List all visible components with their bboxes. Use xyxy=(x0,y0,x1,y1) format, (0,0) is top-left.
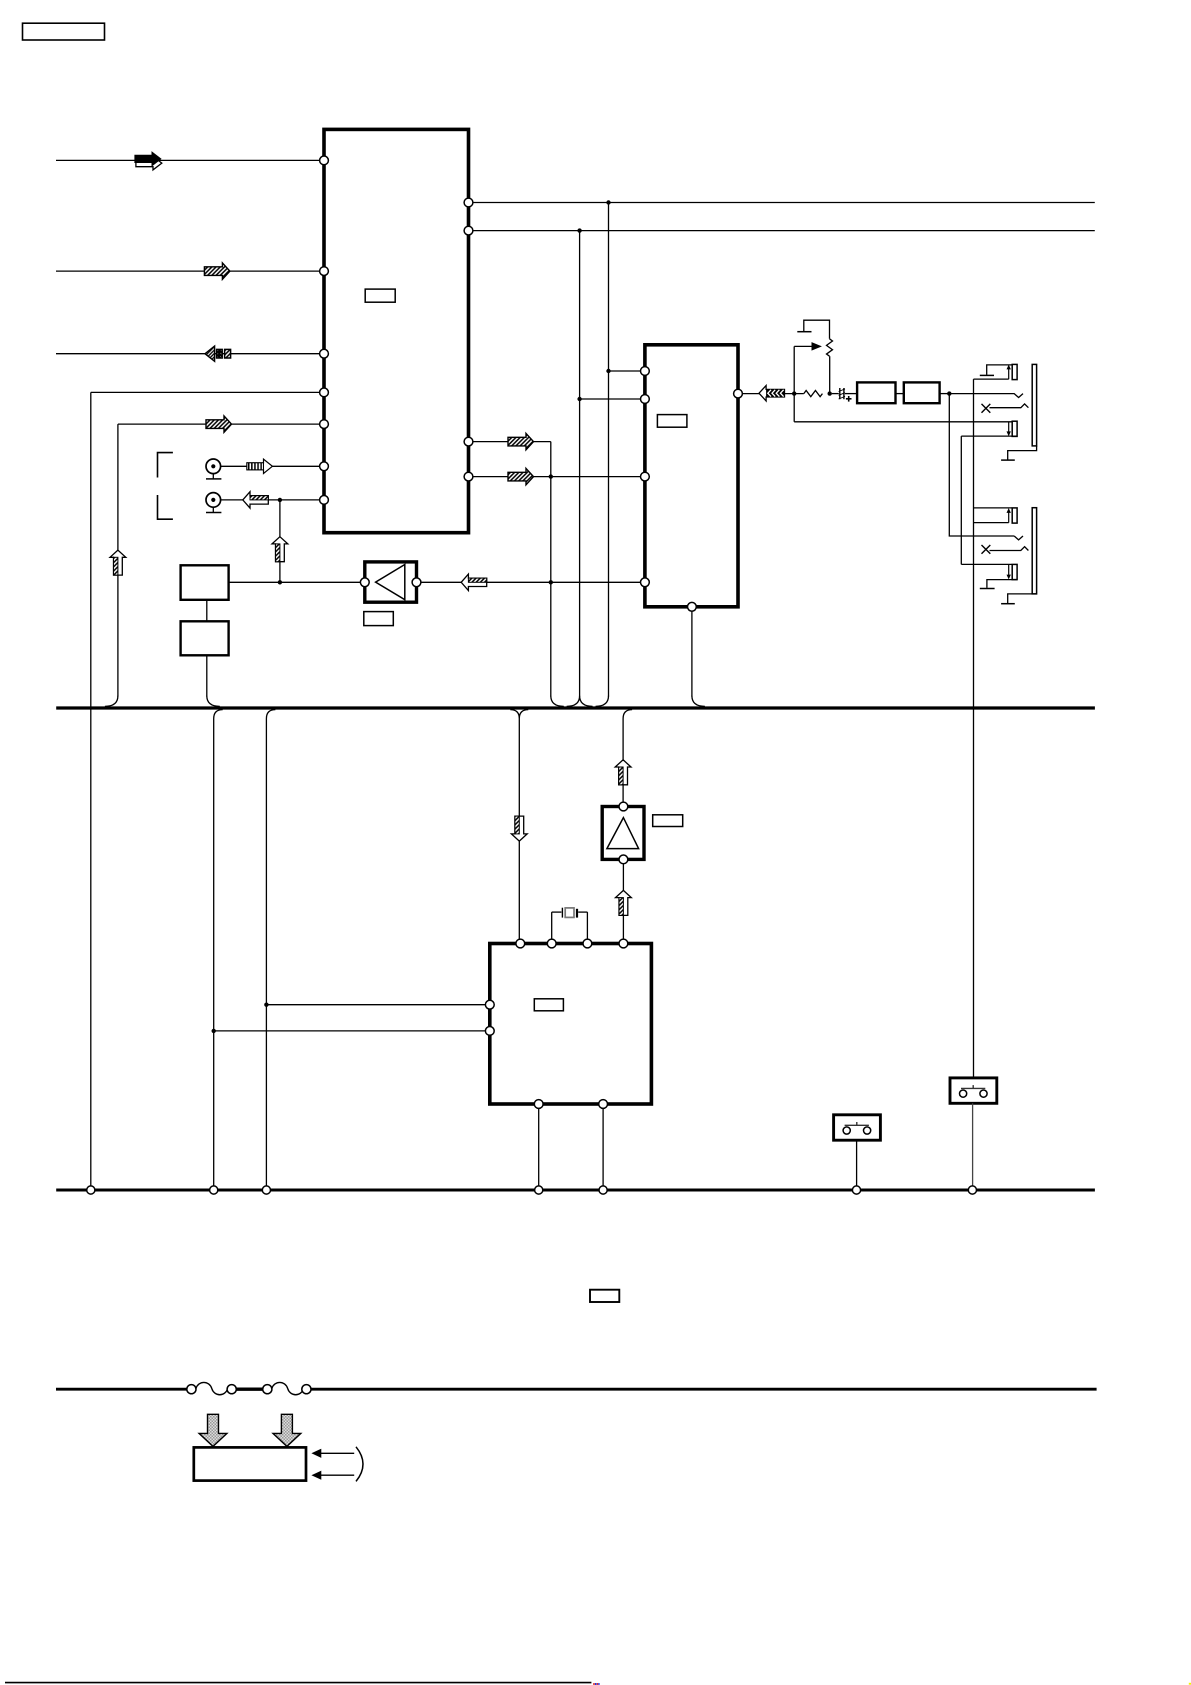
wire junction to C1 xyxy=(832,393,839,395)
up arrow on rail x118 xyxy=(110,550,126,575)
jack J2 xyxy=(206,493,221,508)
striped arrow right xyxy=(247,459,273,473)
head D coil xyxy=(1012,564,1017,579)
pin U1-in1 xyxy=(320,156,329,165)
wire J1 to U1 xyxy=(221,465,320,467)
wire pin4 left xyxy=(91,391,320,393)
potentiometer VR1 (vertical zigzag) xyxy=(827,339,833,356)
tap rail x623 xyxy=(623,710,632,802)
rotary transformer core 2 xyxy=(1032,508,1036,594)
rail x90 down to ground bus xyxy=(90,392,92,1185)
head C top wire xyxy=(974,507,1012,509)
page label box xyxy=(23,23,105,40)
rail x118 down to bus xyxy=(117,424,119,696)
connector CN2 xyxy=(950,1078,997,1103)
bus terminal x538 xyxy=(535,1186,543,1194)
tap rail x213.7 xyxy=(214,710,223,1186)
left arrow with hatched squares xyxy=(205,346,215,361)
wire amp to U2 xyxy=(421,581,641,583)
bracket curve xyxy=(356,1447,363,1482)
bus terminal x213 xyxy=(210,1186,218,1194)
amp box Q1 xyxy=(365,562,417,602)
junction head node xyxy=(947,391,951,395)
head B coil xyxy=(1012,421,1017,436)
head B bottom wire xyxy=(961,435,1017,437)
up arrow Q2 input xyxy=(616,890,632,915)
delay box D1 xyxy=(857,382,895,403)
rotary transformer core 1 xyxy=(1032,364,1036,446)
solid signal arrow xyxy=(136,156,162,170)
head A top wire + chassis xyxy=(987,365,1012,375)
pin U3-t4 xyxy=(619,939,628,948)
branch rail x280 down xyxy=(279,500,281,582)
U1 part-number label box xyxy=(365,289,395,302)
pin U1-p4 xyxy=(320,388,329,397)
pin U1-p7 xyxy=(320,496,329,505)
pin U1-in3 xyxy=(320,349,329,358)
wire U3-L1 to rail x266 xyxy=(266,1004,485,1006)
pin U2-1 xyxy=(641,367,650,376)
winding chevron 1 xyxy=(949,394,1023,398)
pin U1-in2 xyxy=(320,267,329,276)
capacitor C1 (polarized) xyxy=(839,388,841,399)
power line mid segment xyxy=(236,1388,262,1391)
amp triangle xyxy=(376,565,405,600)
wire rail x580 to U2-2 xyxy=(580,398,641,400)
wire box A to amp xyxy=(229,581,361,583)
return arrow 1 xyxy=(320,1452,355,1454)
crystal X1 xyxy=(565,908,574,918)
wire input 2 xyxy=(56,270,320,272)
wire pin5 left xyxy=(118,423,320,425)
plus mark xyxy=(846,398,852,400)
crossed winding 2 xyxy=(982,545,991,554)
pin Q2-bottom xyxy=(619,855,628,864)
chevron arrow left xyxy=(759,386,785,401)
wire J2 to U1 xyxy=(221,499,320,501)
wire rail x608 to U2-1 xyxy=(609,370,641,372)
up arrow to bus xyxy=(615,760,631,785)
box B (sensor) xyxy=(181,621,229,655)
power line right segment xyxy=(311,1388,1097,1391)
crystal legs xyxy=(551,912,553,939)
tap rail x266.4 xyxy=(266,710,275,1186)
junction rail x280 / amp wire xyxy=(278,580,282,584)
junction out2/rail xyxy=(577,228,581,232)
junction wiper xyxy=(792,391,796,395)
rail U2-gnd down to bus xyxy=(691,611,693,696)
footer rule xyxy=(5,1682,591,1684)
wire D1-D2 xyxy=(896,393,904,395)
coil L1 xyxy=(187,1385,196,1394)
IC U3 capstan/servo block xyxy=(490,944,652,1105)
wire U2 out xyxy=(742,393,760,395)
gray arrow 1 xyxy=(199,1414,227,1446)
corner mark xyxy=(1189,1683,1191,1685)
core 1 ground xyxy=(1008,446,1037,460)
rail V3 (to connector) xyxy=(973,379,975,1078)
middle supply bus xyxy=(56,706,1095,709)
wire input 1 xyxy=(56,159,320,161)
Q2 label box xyxy=(653,815,683,827)
wire C1 to delay box xyxy=(845,393,857,395)
IC U1 main block xyxy=(324,129,469,532)
wire rail x519 into U3 xyxy=(518,719,520,940)
rail x551 down to bus xyxy=(550,442,552,697)
pin U2-gnd xyxy=(688,602,697,611)
pin amp-in xyxy=(360,578,369,587)
head D bottom wire + chassis xyxy=(987,580,1017,588)
crossed winding 1 xyxy=(982,404,991,413)
bus terminal x266 xyxy=(262,1186,270,1194)
core 2 ground xyxy=(1008,594,1037,603)
wire D2 to head node xyxy=(940,393,950,395)
junction amp wire / rail x551 xyxy=(549,580,553,584)
junction rail x266 xyxy=(264,1003,268,1007)
wiper arm xyxy=(794,345,812,347)
bus terminal x90 xyxy=(87,1186,95,1194)
junction J2 branch xyxy=(278,498,282,502)
bus terminal x856 xyxy=(852,1186,860,1194)
wire U3-b1 to ground bus xyxy=(538,1108,540,1185)
link box A-B xyxy=(206,600,208,622)
VR1 top to ground xyxy=(804,320,830,339)
rail V2 xyxy=(960,436,962,564)
junction rail x213 xyxy=(212,1029,216,1033)
junction rail x580 xyxy=(577,397,581,401)
junction rail x608 xyxy=(606,369,610,373)
pin Q2-top xyxy=(619,802,628,811)
pin U1-out4 xyxy=(464,472,473,481)
head D top wire xyxy=(961,563,1011,565)
head A coil xyxy=(1012,364,1017,379)
pin U3-L2 xyxy=(485,1027,494,1036)
U2 label box xyxy=(657,415,687,428)
gray arrow 2 xyxy=(273,1414,301,1446)
winding chevron 2 xyxy=(1014,536,1023,540)
jack J1 xyxy=(206,459,221,474)
wire CN2 to ground bus xyxy=(972,1103,974,1186)
head A bottom wire xyxy=(974,378,1009,380)
buffer Q2 box xyxy=(602,807,644,860)
rail V1 (head node down) xyxy=(949,394,1014,536)
wire arrow to junction xyxy=(785,393,804,395)
junction out1/rail xyxy=(606,200,610,204)
pin U3-t2 xyxy=(547,939,556,948)
wire out3 xyxy=(473,441,551,443)
junction out4/rail x551 xyxy=(549,474,553,478)
pin U3-t1 xyxy=(516,939,525,948)
AC unit box xyxy=(194,1447,306,1480)
feedback wire to head B xyxy=(794,421,1011,423)
bus terminal x603 xyxy=(599,1186,607,1194)
head C bottom wire xyxy=(974,522,1009,524)
wire out4 to U2 xyxy=(473,476,641,478)
pin U2-3 xyxy=(641,472,650,481)
head C coil xyxy=(1012,508,1017,523)
wire box B to bus xyxy=(206,655,208,696)
dashed bracket (external unit) xyxy=(158,453,173,478)
pin U3-b2 xyxy=(599,1100,608,1109)
power line left segment xyxy=(56,1388,187,1391)
bus terminal x972 xyxy=(968,1186,976,1194)
rail x580 down to bus xyxy=(579,231,581,697)
up arrow on rail x280 xyxy=(272,537,288,562)
pin U2-4 xyxy=(641,578,650,587)
pin U1-out3 xyxy=(464,437,473,446)
rail x608 down to bus xyxy=(608,203,610,697)
pin U2-2 xyxy=(641,395,650,404)
ground bus xyxy=(56,1188,1095,1191)
resistor R1 (horizontal zigzag) xyxy=(804,391,823,397)
box A (sensor) xyxy=(181,565,229,600)
coil L2 xyxy=(263,1385,272,1394)
note label box xyxy=(590,1290,619,1302)
U3 label box xyxy=(534,999,563,1011)
wiper rail down xyxy=(793,346,795,421)
return arrow 2 xyxy=(320,1474,355,1476)
hatched arrow left xyxy=(243,492,268,508)
connector CN1 xyxy=(834,1115,881,1140)
wire CN1 to ground bus xyxy=(856,1140,858,1186)
pin U3-b1 xyxy=(534,1100,543,1109)
junction R1/pot xyxy=(828,391,832,395)
wire U3-L2 to rail x213 xyxy=(214,1030,486,1032)
wire U3-b2 to ground bus xyxy=(602,1108,604,1185)
wire Q2 to U3 xyxy=(622,864,624,939)
footer colour dashes xyxy=(593,1683,595,1685)
pin U1-out2 xyxy=(464,226,473,235)
pin U2-out xyxy=(734,389,743,398)
pin U3-t3 xyxy=(583,939,592,948)
hatched arrow right xyxy=(204,263,230,279)
pin amp-out xyxy=(412,578,421,587)
pin U3-L1 xyxy=(485,1000,494,1009)
delay box D2 xyxy=(904,382,940,403)
amp label box xyxy=(364,612,394,626)
pin U1-out1 xyxy=(464,198,473,207)
tap rail x519.3 xyxy=(510,710,528,940)
pin U1-p6 xyxy=(320,462,329,471)
IC U2 head-amp block xyxy=(645,345,738,607)
pin U1-p5 xyxy=(320,420,329,429)
wire out1 to right edge xyxy=(473,202,1095,204)
wire out2 to right edge xyxy=(473,230,1095,232)
down arrow on x519 xyxy=(511,816,527,841)
buffer triangle xyxy=(607,818,639,849)
VR1 bottom to junction xyxy=(829,356,831,393)
wire input 3 xyxy=(56,353,320,355)
